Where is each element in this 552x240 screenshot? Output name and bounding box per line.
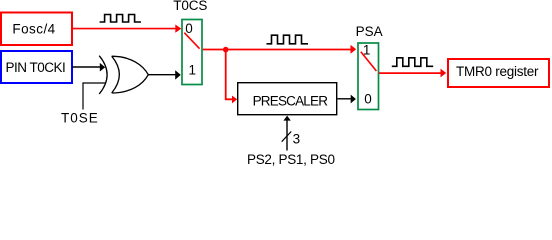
- svg-text:Fosc/4: Fosc/4: [12, 22, 55, 37]
- wire T0CS mux output to PSA mux input 1 (red, with arrowhead): [203, 45, 356, 54]
- clock waveform 2 (after T0CS mux): [267, 35, 309, 44]
- wire PSA mux output to TMR0 register (red, with arrowhead): [379, 69, 446, 78]
- svg-text:0: 0: [364, 92, 372, 107]
- wire PIN T0CKI to XOR gate top input (black, with arrowhead): [72, 63, 105, 72]
- PSA multiplexer (green box): [358, 42, 379, 109]
- svg-text:1: 1: [189, 63, 197, 78]
- svg-text:PRESCALER: PRESCALER: [253, 93, 329, 108]
- svg-text:PSA: PSA: [356, 24, 383, 39]
- PSA mux switch arm (red diagonal): [361, 52, 377, 71]
- TMR0 register block: [448, 59, 549, 87]
- junction node on T0CS output wire: [223, 47, 229, 53]
- clock waveform 1 (after Fosc/4): [100, 15, 141, 23]
- PIN T0CKI input block: [1, 51, 72, 83]
- PS2, PS1, PS0 select bus wire (up into PRESCALER, arrowhead): [283, 116, 290, 151]
- T0CS multiplexer (green box): [182, 20, 202, 85]
- svg-text:TMR0 register: TMR0 register: [456, 64, 539, 79]
- wire PRESCALER output to PSA mux input 0 (black, with arrowhead): [337, 95, 356, 104]
- svg-text:T0SE: T0SE: [61, 111, 99, 126]
- wire junction down to PRESCALER input (red, with arrowhead): [226, 50, 238, 104]
- Fosc/4 clock source block: [1, 13, 72, 46]
- svg-text:3: 3: [293, 131, 301, 146]
- svg-text:T0CS: T0CS: [173, 0, 207, 13]
- PRESCALER block: [238, 83, 337, 115]
- clock waveform 3 (after PSA mux): [392, 58, 433, 67]
- wire T0SE to XOR gate lower input (black L shape): [83, 83, 105, 110]
- wire Fosc/4 to T0CS mux input 0 (red, with arrowhead): [72, 25, 181, 33]
- wire XOR output to T0CS mux input 1 (black, with arrowhead): [148, 70, 181, 79]
- XOR gate U1: [99, 56, 148, 94]
- bus width slash: [282, 132, 292, 142]
- T0CS mux switch arm (red diagonal): [184, 33, 199, 49]
- svg-text:PS2, PS1, PS0: PS2, PS1, PS0: [247, 152, 335, 167]
- svg-text:PIN T0CKI: PIN T0CKI: [6, 60, 66, 75]
